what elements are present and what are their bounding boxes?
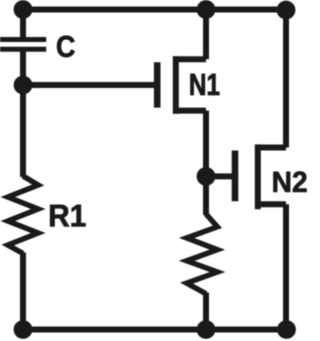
node dot N2 gate junction — [197, 167, 216, 186]
wire top rail — [23, 7, 286, 13]
label N1 — [191, 74, 220, 95]
wire left from top rail to capacitor — [20, 10, 26, 38]
wire left from capacitor to R1 — [20, 51, 26, 177]
wire N1 drain to top rail — [203, 10, 209, 60]
wire left from R1 to bottom rail — [20, 253, 26, 330]
node dot bottom-middle — [197, 320, 216, 339]
node A dot (gate of N1 / capacitor bottom) — [14, 76, 33, 95]
wire N2 source to bottom rail — [283, 204, 289, 329]
label N2 — [274, 172, 307, 192]
label R1 — [50, 205, 85, 227]
transistor N1 gate bar — [154, 62, 161, 107]
node dot bottom-right — [277, 320, 296, 339]
wire N2 drain to top rail — [283, 10, 289, 148]
transistor N1 channel bar — [173, 56, 179, 113]
wire N2 gate lead — [206, 173, 235, 179]
transistor N2 channel bar — [255, 144, 261, 209]
transistor N1 drain stub — [173, 56, 206, 62]
capacitor C bottom plate — [0, 47, 46, 52]
wire middle resistor to bottom rail — [203, 293, 209, 330]
node dot bottom-left — [14, 320, 33, 339]
resistor R1 zigzag — [8, 176, 38, 254]
transistor N1 source stub — [173, 108, 206, 114]
wire gate lead from node A to N1 gate — [23, 82, 156, 88]
capacitor C top plate — [0, 37, 46, 42]
label C — [57, 36, 75, 57]
transistor N2 gate bar — [232, 151, 239, 202]
resistor R2 zigzag (unlabeled middle resistor) — [187, 214, 218, 294]
node dot top-right — [277, 1, 296, 20]
node dot top-middle — [197, 0, 216, 19]
node dot top-left — [14, 0, 33, 19]
transistor N2 source stub — [255, 201, 286, 207]
transistor N2 drain stub — [255, 145, 286, 151]
wire bottom rail — [23, 327, 287, 333]
wire N1 source down to middle resistor — [203, 111, 209, 215]
